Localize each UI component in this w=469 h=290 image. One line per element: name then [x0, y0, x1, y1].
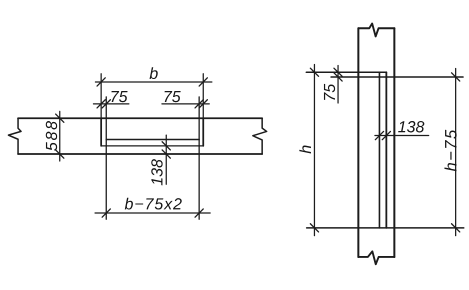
panel top edge with break — [358, 24, 394, 37]
tick 75RV a — [334, 68, 342, 76]
tick 75RV b — [334, 73, 342, 81]
label 138 left view — [151, 159, 162, 185]
dim line 138 left view — [165, 135, 167, 184]
extension line left outer — [100, 74, 102, 118]
tick b-75x2 right — [195, 209, 203, 217]
tick 75L b — [102, 100, 110, 108]
groove outer bottom — [101, 145, 203, 147]
groove outer right wall — [202, 118, 204, 146]
dim line b — [95, 81, 211, 83]
tick 588 top — [56, 114, 64, 122]
label 588 — [46, 121, 57, 151]
tick 75R b — [199, 100, 207, 108]
dim line h-75 — [455, 68, 457, 235]
panel bottom edge with break — [358, 251, 394, 264]
left break line — [8, 118, 21, 154]
tick h-75 bottom — [452, 224, 460, 232]
tick h top — [310, 68, 318, 76]
groove wall v2 — [385, 72, 387, 228]
tick b-75x2 left — [102, 209, 110, 217]
tick 75L a — [97, 100, 105, 108]
extension line right outer — [202, 74, 204, 118]
tick 138R a — [375, 131, 383, 139]
dim line 75 right view — [337, 65, 339, 103]
dim line 588 — [59, 111, 61, 161]
dim line 75 right — [162, 103, 209, 105]
groove outer left wall — [100, 118, 102, 146]
tick h bottom — [310, 224, 318, 232]
tick h-75 top — [452, 73, 460, 81]
right break line — [253, 118, 267, 154]
dim line 138 right view — [375, 135, 429, 137]
label 138 right view — [398, 121, 424, 132]
label 75 right view — [324, 84, 335, 100]
label 75 right — [165, 91, 181, 102]
tick b right — [199, 78, 207, 86]
dim line h — [313, 64, 315, 235]
label b — [150, 67, 158, 79]
groove wall v1 — [378, 72, 380, 228]
dim line 75 left — [93, 103, 128, 105]
bearing line B — [331, 76, 463, 78]
label 75 left — [111, 91, 127, 102]
bearing line A — [306, 71, 386, 73]
tick 588 bottom — [56, 150, 64, 158]
panel left edge — [357, 28, 359, 257]
panel top edge — [18, 117, 262, 119]
tick 138R b — [382, 131, 390, 139]
label b-75x2 — [125, 198, 182, 210]
label h-75 — [444, 130, 456, 172]
groove inner left wall / extension line — [105, 97, 107, 219]
groove inner right wall / extension line — [198, 97, 200, 219]
label h — [299, 146, 311, 154]
tick 138L bottom — [162, 150, 170, 158]
tick 75R a — [195, 100, 203, 108]
tick 138L top — [162, 142, 170, 150]
panel right edge — [393, 28, 395, 257]
bottom boundary line — [307, 227, 464, 229]
dim line b-75x2 — [95, 212, 210, 214]
tick b left — [97, 78, 105, 86]
panel bottom edge — [18, 153, 262, 155]
groove inner bottom — [106, 139, 199, 141]
